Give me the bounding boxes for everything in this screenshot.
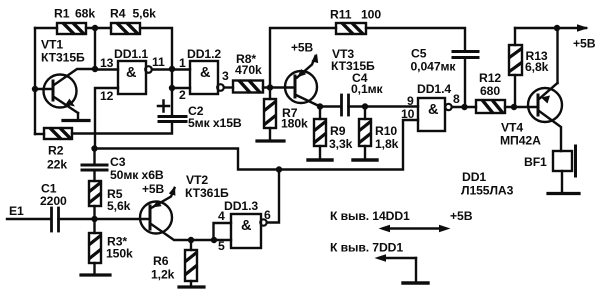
svg-text:&: & — [428, 102, 439, 118]
resistor R7 — [264, 88, 308, 141]
wire top-left rail R1 left — [35, 27, 57, 29]
svg-text:+5В: +5В — [142, 182, 164, 196]
node junction R1/R4/pin13 — [92, 25, 98, 31]
svg-text:E1: E1 — [9, 204, 24, 218]
wire R8 to VT3 base — [263, 86, 295, 88]
transistor VT1 KT315B — [35, 38, 95, 120]
svg-text:+5В: +5В — [573, 37, 596, 51]
resistor R10 — [359, 107, 399, 160]
svg-text:+5В: +5В — [450, 209, 473, 223]
svg-text:C5: C5 — [411, 47, 427, 61]
speaker BF1 — [524, 146, 576, 192]
wire pin 12 corner — [95, 88, 118, 149]
resistor R9 — [314, 107, 353, 160]
svg-text:50мк х6В: 50мк х6В — [110, 168, 164, 182]
svg-text:МП42А: МП42А — [500, 134, 541, 148]
ground R9 — [308, 158, 332, 161]
wire R5 bottom — [93, 206, 95, 219]
svg-text:VT1: VT1 — [41, 38, 63, 52]
svg-text:1: 1 — [179, 56, 186, 70]
node R13 bottom junction — [511, 104, 517, 110]
svg-text:C3: C3 — [110, 155, 126, 169]
transistor VT4 MP42A — [500, 28, 562, 151]
svg-text:5: 5 — [218, 239, 225, 253]
capacitor C1 — [40, 182, 67, 232]
node R10 junction — [362, 103, 368, 109]
svg-text:VT4: VT4 — [501, 121, 523, 135]
svg-text:1,2k: 1,2k — [151, 268, 175, 282]
ground BF1 — [548, 192, 579, 195]
wire feedback rail to DD1.3 area — [95, 120, 419, 170]
svg-text:DD1: DD1 — [462, 170, 486, 184]
svg-text:R10: R10 — [375, 124, 397, 138]
node R7/R11 junction — [267, 84, 273, 90]
ground R6 — [179, 285, 204, 288]
resistor R13 — [509, 28, 549, 107]
wire DD1.3 output up to rail — [267, 170, 279, 223]
svg-text:DD1.3: DD1.3 — [224, 199, 258, 213]
svg-text:DD1.1: DD1.1 — [114, 47, 148, 61]
resistor R3* — [89, 219, 133, 274]
svg-text:22k: 22k — [47, 158, 67, 172]
resistor R6 — [151, 240, 197, 287]
svg-text:&: & — [126, 65, 137, 81]
svg-text:180k: 180k — [281, 117, 308, 131]
wire R4 right to vertical feedback line — [140, 28, 172, 116]
svg-text:К выв. 7DD1: К выв. 7DD1 — [330, 241, 403, 255]
svg-text:6: 6 — [264, 208, 271, 222]
wire C1 to VT2 base — [59, 218, 151, 220]
svg-text:12: 12 — [100, 89, 114, 103]
svg-text:КТ315Б: КТ315Б — [41, 51, 85, 65]
op-amp gate DD1.1 — [114, 47, 152, 94]
resistor R1 — [54, 7, 95, 35]
capacitor C4 — [342, 71, 384, 115]
resistor R8* — [233, 52, 263, 93]
svg-text:150k: 150k — [106, 247, 133, 261]
resistor R4 — [110, 7, 156, 35]
op-amp gate DD1.3 — [224, 199, 267, 248]
svg-text:R6: R6 — [153, 254, 169, 268]
wire DD1.4 output to R12 — [452, 106, 476, 108]
svg-text:R11: R11 — [330, 8, 352, 22]
node C5 bottom junction — [461, 104, 467, 110]
wire R11 right to C5 — [366, 28, 465, 51]
svg-text:13: 13 — [100, 56, 114, 70]
wire R12 to VT4 base — [505, 106, 538, 108]
ground R7 — [257, 139, 284, 142]
node VT3 emitter / R9 junction — [317, 103, 323, 109]
svg-text:R2: R2 — [48, 144, 64, 158]
node DD1.3 pin5 junction — [211, 237, 217, 243]
svg-text:3,3k: 3,3k — [329, 137, 353, 151]
svg-text:R1: R1 — [54, 7, 70, 21]
resistor R2 — [44, 128, 72, 172]
wire E1 input — [7, 218, 51, 220]
svg-text:470k: 470k — [235, 63, 262, 77]
svg-text:6,8k: 6,8k — [525, 60, 549, 74]
capacitor C5 — [411, 47, 479, 108]
node R5/R3 junction — [91, 216, 97, 222]
wire DD1.2 output to R8 — [225, 86, 233, 88]
svg-text:&: & — [241, 218, 252, 234]
svg-text:DD1.4: DD1.4 — [417, 82, 451, 96]
node DD1.3 output rail junction — [276, 166, 282, 172]
resistor R12 — [476, 71, 505, 113]
svg-text:100: 100 — [361, 8, 381, 22]
svg-text:R4: R4 — [110, 7, 126, 21]
svg-text:2200: 2200 — [40, 194, 67, 208]
op-amp gate DD1.2 — [187, 47, 224, 94]
label DD1 type — [461, 170, 514, 198]
svg-text:0,1мк: 0,1мк — [351, 82, 384, 96]
wire pin13 vertical from R1/R4 node — [94, 28, 96, 69]
power +5V rail top right — [515, 24, 596, 50]
capacitor C2 — [158, 101, 242, 131]
svg-text:КТ361Б: КТ361Б — [185, 186, 229, 200]
ground VT1 emitter — [63, 119, 89, 122]
wire double arrow 14DD1 to +5V — [379, 225, 451, 233]
svg-text:DD1.2: DD1.2 — [187, 47, 221, 61]
svg-text:BF1: BF1 — [524, 155, 547, 169]
wire C2 bottom to R2 — [72, 122, 172, 134]
svg-text:VT2: VT2 — [186, 173, 208, 187]
transistor VT2 KT361B — [140, 173, 229, 240]
ground R10 — [353, 158, 377, 161]
wire pin 13 into DD1.1 — [95, 68, 118, 70]
svg-text:0,047мк: 0,047мк — [411, 60, 457, 74]
node pin13 junction — [92, 66, 98, 72]
wire left rail (R1 left / VT1 base / R2 left) — [34, 28, 36, 134]
svg-text:К выв. 14DD1: К выв. 14DD1 — [330, 209, 410, 223]
node VT1 base junction — [32, 86, 38, 92]
svg-text:&: & — [200, 65, 211, 81]
svg-text:11: 11 — [152, 55, 165, 69]
svg-text:2: 2 — [179, 88, 186, 102]
wire pin 2 stub — [172, 87, 190, 89]
resistor R5 — [89, 181, 131, 213]
wire DD1.3 inputs tie — [214, 223, 232, 240]
svg-text:1,8k: 1,8k — [375, 137, 399, 151]
svg-text:8: 8 — [453, 92, 460, 106]
svg-text:3: 3 — [222, 69, 229, 83]
node DD1.2 pin1 junction — [169, 66, 175, 72]
node R6 junction — [188, 237, 194, 243]
svg-text:680: 680 — [480, 84, 500, 98]
node DD1.2 pin2 junction — [169, 85, 175, 91]
svg-text:5,6k: 5,6k — [133, 7, 157, 21]
wire emitter node to C4 — [320, 105, 341, 107]
svg-text:5мк х15В: 5мк х15В — [188, 116, 242, 130]
transistor VT3 KT315B — [285, 47, 375, 107]
svg-text:5,6k: 5,6k — [107, 199, 131, 213]
svg-text:10: 10 — [401, 107, 415, 121]
wire R1 to R4 — [86, 27, 111, 29]
svg-text:68k: 68k — [75, 7, 95, 21]
wire C4 to DD1.4 pin 9 — [349, 105, 419, 107]
svg-text:+5В: +5В — [291, 41, 313, 55]
op-amp gate DD1.4 — [417, 82, 452, 131]
ground R3* — [81, 273, 110, 276]
wire R2 left to rail — [35, 133, 44, 135]
ground 7DD1 — [403, 281, 428, 284]
capacitor C3 — [82, 149, 164, 183]
node C3 top junction — [91, 145, 97, 151]
svg-text:R9: R9 — [330, 124, 346, 138]
wire DD1.1 output to DD1.2 pin1 — [152, 68, 190, 70]
svg-text:R12: R12 — [479, 71, 501, 85]
node VT4 emitter rail junction — [554, 25, 560, 31]
wire R11 left leg — [270, 28, 336, 88]
wire 7DD1 arrow to ground — [375, 254, 417, 282]
resistor R11 — [330, 8, 381, 35]
svg-text:Л155ЛА3: Л155ЛА3 — [461, 184, 514, 198]
